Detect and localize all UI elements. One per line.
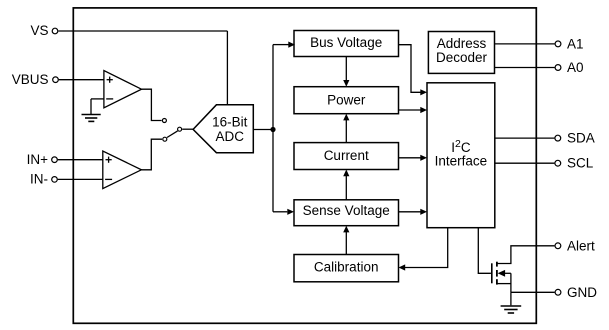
svg-text:ADC: ADC [216, 129, 245, 144]
svg-text:SCL: SCL [567, 156, 594, 171]
svg-text:Current: Current [324, 148, 369, 163]
svg-text:A1: A1 [567, 36, 584, 51]
svg-text:Power: Power [327, 92, 366, 107]
svg-text:Calibration: Calibration [314, 259, 379, 274]
svg-text:Address: Address [437, 36, 487, 51]
svg-text:Sense Voltage: Sense Voltage [303, 203, 390, 218]
svg-text:A0: A0 [567, 60, 584, 75]
svg-text:GND: GND [567, 285, 597, 300]
svg-text:Alert: Alert [567, 239, 595, 254]
svg-text:VBUS: VBUS [12, 72, 49, 87]
svg-text:VS: VS [30, 23, 48, 38]
svg-text:IN+: IN+ [27, 152, 49, 167]
svg-text:Interface: Interface [435, 153, 488, 168]
svg-text:Decoder: Decoder [436, 50, 488, 65]
svg-text:16-Bit: 16-Bit [212, 114, 248, 129]
svg-text:Bus Voltage: Bus Voltage [310, 35, 382, 50]
svg-text:IN-: IN- [30, 172, 48, 187]
svg-text:SDA: SDA [567, 131, 595, 146]
